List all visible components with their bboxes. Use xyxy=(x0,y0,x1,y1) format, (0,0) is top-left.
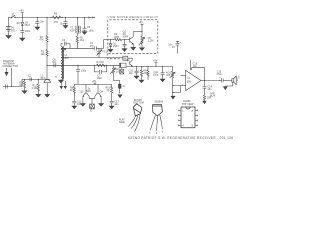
capacitor C11 xyxy=(153,66,168,79)
svg-text:22K: 22K xyxy=(41,53,46,56)
svg-text:SIDE: SIDE xyxy=(119,121,125,124)
ground R12 xyxy=(36,94,41,97)
wire output xyxy=(201,79,222,81)
svg-text:47R: 47R xyxy=(54,21,59,24)
ground R11 xyxy=(22,91,27,94)
svg-text:2.2M: 2.2M xyxy=(148,39,153,42)
TO-92 package 2 body xyxy=(153,105,163,116)
ground battery xyxy=(6,36,11,39)
svg-text:+9V: +9V xyxy=(139,21,144,24)
ground coil xyxy=(59,80,64,83)
wire wiper to opamp xyxy=(173,86,181,93)
wire busB left corner down to line C xyxy=(103,40,105,49)
wire pin up xyxy=(191,60,198,71)
svg-text:47p: 47p xyxy=(90,45,95,48)
node vol x173 wiper xyxy=(172,85,173,86)
diode D2 vertical xyxy=(17,17,31,30)
resistor R6 grid xyxy=(114,33,122,41)
svg-text:10u: 10u xyxy=(60,22,65,25)
svg-text:2N3904: 2N3904 xyxy=(154,101,163,104)
dome choke body xyxy=(44,79,50,94)
svg-text:10n: 10n xyxy=(52,61,57,64)
antenna coupling cap xyxy=(61,39,70,49)
capacitor C7 bypass loop xyxy=(95,65,107,80)
opamp minus input xyxy=(181,73,186,76)
wire to speaker xyxy=(223,79,232,81)
ground right leg xyxy=(109,106,114,109)
svg-text:B+ 9V: B+ 9V xyxy=(88,17,95,20)
wire upper line xyxy=(22,78,44,80)
two-pin header xyxy=(55,75,67,88)
capacitor on upper line xyxy=(28,75,32,82)
ground Q4 xyxy=(99,104,104,107)
feedback loop xyxy=(192,68,205,81)
svg-text:2K2: 2K2 xyxy=(143,72,148,75)
wire x47 down from det line xyxy=(46,65,48,79)
trim box xyxy=(119,84,126,93)
wire battery to switch xyxy=(9,16,12,18)
wire collector rail xyxy=(133,31,142,33)
wire input line xyxy=(3,86,22,88)
transistor Q2 loop xyxy=(123,56,132,60)
capacitor C17 right leg xyxy=(110,101,120,107)
svg-text:549: 549 xyxy=(86,90,91,93)
svg-text:w: w xyxy=(55,75,57,78)
DIP-8 right pins xyxy=(195,110,197,127)
ground R7 xyxy=(140,48,145,51)
capacitor C4 xyxy=(60,17,68,25)
dashed stub lower left xyxy=(108,53,120,58)
resistor R10 zobel xyxy=(203,95,211,101)
svg-text:10K: 10K xyxy=(166,74,171,77)
ground left leg xyxy=(72,106,77,109)
ground dome xyxy=(45,94,50,97)
node bus junction x84 xyxy=(84,17,85,18)
node input x11 xyxy=(11,86,12,87)
node output x204 xyxy=(204,80,205,81)
bus B grid line xyxy=(104,39,115,41)
svg-text:LOW NOISE REGEN CIRCUIT: LOW NOISE REGEN CIRCUIT xyxy=(108,15,159,19)
opamp plus input xyxy=(181,83,186,86)
ground C11 xyxy=(160,79,165,82)
resistor R under T1 xyxy=(76,36,84,48)
svg-text:42IF: 42IF xyxy=(70,29,75,32)
variable capacitor VC1 xyxy=(97,48,108,57)
speaker LS1 xyxy=(232,76,240,85)
svg-text:10n: 10n xyxy=(129,72,134,75)
tap arrow on coil xyxy=(63,49,66,52)
jack box hatch xyxy=(90,104,95,113)
ground arrow x120 xyxy=(118,95,122,98)
ground x37 xyxy=(35,27,40,30)
switch S1 xyxy=(11,14,15,18)
capacitor input series xyxy=(6,85,8,89)
speaker return wire xyxy=(225,82,233,86)
svg-text:386: 386 xyxy=(187,80,192,83)
svg-text:+9V: +9V xyxy=(153,60,158,63)
capacitor C1 xyxy=(20,30,31,38)
wire line D xyxy=(61,57,123,59)
node bus junction x47 xyxy=(46,17,47,18)
node regen junction xyxy=(141,31,142,32)
DIP-8 body xyxy=(181,107,195,128)
svg-text:K8TNO PATRIOT S.W. REGENERATIV: K8TNO PATRIOT S.W. REGENERATIVE RECEIVER… xyxy=(128,136,233,140)
capacitor C15 out xyxy=(216,70,223,82)
svg-text:4K7: 4K7 xyxy=(70,89,75,92)
capacitor C8 xyxy=(123,39,127,48)
ground x65 xyxy=(63,26,68,29)
svg-text:1K: 1K xyxy=(106,89,109,92)
capacitor C2 xyxy=(35,17,44,27)
node F x148 xyxy=(147,66,148,67)
svg-text:CONNECTOR: CONNECTOR xyxy=(2,65,18,68)
power flag +9V bias xyxy=(92,80,97,84)
resistor R3 lower divider xyxy=(41,49,49,65)
ground Q3 xyxy=(81,104,86,107)
svg-text:1N34: 1N34 xyxy=(113,45,119,48)
ground C10 xyxy=(134,76,139,79)
capacitor C10 xyxy=(129,66,139,76)
jack box below AF line xyxy=(120,68,124,75)
capacitor C5 polarized xyxy=(83,17,95,32)
ground arrow volume xyxy=(171,96,175,99)
potentiometer volume xyxy=(166,66,175,96)
capacitor C6 on line E xyxy=(52,58,57,67)
ground C8 xyxy=(122,49,127,52)
node line C x79 xyxy=(77,48,78,49)
svg-text:2.2M: 2.2M xyxy=(32,87,37,90)
node F x162 xyxy=(162,66,163,67)
svg-text:1K: 1K xyxy=(172,46,175,49)
svg-text:100n: 100n xyxy=(25,30,31,33)
wire detector line E xyxy=(47,64,120,66)
svg-text:10u: 10u xyxy=(114,103,119,106)
node bus junction x22 xyxy=(22,17,23,18)
svg-text:100K: 100K xyxy=(114,36,120,39)
potentiometer throttle xyxy=(110,65,122,75)
TO-92 package 1 legs xyxy=(128,115,140,132)
svg-text:+9V: +9V xyxy=(19,10,24,13)
node x38 xyxy=(38,79,39,80)
svg-text:BOTTOM: BOTTOM xyxy=(133,102,143,105)
junction box det-AF xyxy=(120,63,127,67)
resistor R9 left leg xyxy=(70,84,76,101)
transformer T1 xyxy=(70,17,81,36)
node line D left xyxy=(64,57,65,58)
svg-text:47K: 47K xyxy=(39,38,44,41)
resistor R2 upper divider xyxy=(39,17,48,49)
svg-text:100p: 100p xyxy=(81,69,87,72)
transistor Q4 xyxy=(95,84,104,103)
ground D1 xyxy=(108,49,113,52)
node line E x47 xyxy=(46,65,47,66)
wire pot to AF line xyxy=(114,75,120,84)
wire step up xyxy=(21,79,23,86)
node x24 xyxy=(24,79,25,80)
dashed box regen circuit xyxy=(108,20,158,54)
power flag +9V regen xyxy=(139,21,144,32)
power flag +9V AF xyxy=(153,60,158,67)
node F x133 xyxy=(132,66,133,67)
wire coil top corner xyxy=(60,44,62,45)
ground x84 xyxy=(82,32,87,35)
capacitor C16 left leg xyxy=(72,101,82,107)
svg-text:3904: 3904 xyxy=(123,36,129,39)
TO-92 package 2 legs xyxy=(150,115,162,131)
ground arrow zobel xyxy=(203,101,206,103)
svg-text:1M: 1M xyxy=(19,84,22,87)
diode D1 xyxy=(109,40,119,50)
svg-text:100u: 100u xyxy=(89,29,95,32)
antenna jack pins xyxy=(5,68,12,87)
node line E x79 xyxy=(77,65,78,66)
node bus junction x65 xyxy=(65,17,66,18)
resistor R10 right leg xyxy=(105,84,112,101)
svg-text:OUT: OUT xyxy=(210,95,216,98)
power flag +9V left xyxy=(19,10,24,18)
node R4 right xyxy=(106,65,107,66)
resistor R4 on line E xyxy=(96,61,107,67)
capacitor C12 supply xyxy=(168,41,182,54)
capacitor C14 zobel xyxy=(203,81,213,95)
TO-92 package 1 body xyxy=(133,104,142,116)
op-amp U1 triangle xyxy=(186,70,201,90)
capacitor C3 on line C xyxy=(90,42,97,50)
wire AF supply line F xyxy=(126,65,173,67)
svg-text:5817: 5817 xyxy=(25,24,31,27)
battery BT1 xyxy=(6,17,16,35)
node D1 junction xyxy=(110,39,111,40)
resistor R7 xyxy=(140,66,148,80)
resistor R11 to ground xyxy=(19,79,25,90)
wire bias rail xyxy=(74,83,111,85)
svg-text:10n: 10n xyxy=(207,88,212,91)
transistor Q1 regen xyxy=(123,30,134,47)
inductor L1 tank coil xyxy=(61,45,69,81)
svg-text:100p: 100p xyxy=(97,77,103,80)
resistor R1 series in bus xyxy=(50,12,63,24)
svg-text:R4 1M: R4 1M xyxy=(97,61,104,64)
DIP-8 left pins xyxy=(179,110,181,127)
ground arrow speaker xyxy=(223,87,227,90)
svg-text:2K2: 2K2 xyxy=(80,39,85,42)
ground R7 xyxy=(139,80,144,83)
ground Q1 xyxy=(131,47,136,50)
node bus junction x77 xyxy=(77,17,78,18)
svg-text:10n: 10n xyxy=(40,20,45,23)
capacitor coupling x79 xyxy=(76,65,87,84)
ground x22 xyxy=(20,38,25,41)
wire top supply bus xyxy=(16,16,96,18)
transistor Q3 xyxy=(80,84,89,103)
node bus junction x37 xyxy=(37,17,38,18)
resistor R8 xyxy=(147,66,149,80)
node R4 left xyxy=(94,65,95,66)
svg-text:100u: 100u xyxy=(153,73,159,76)
svg-text:BT1: BT1 xyxy=(11,30,16,33)
node F x141 xyxy=(141,66,142,67)
wire line C xyxy=(61,47,94,49)
wire emitters join xyxy=(89,98,95,104)
svg-text:TOP VIEW: TOP VIEW xyxy=(182,103,195,106)
resistor R12 to ground xyxy=(32,79,40,94)
svg-text:+9V: +9V xyxy=(92,80,97,83)
svg-text:VC1: VC1 xyxy=(102,50,107,53)
potentiometer R7 regen xyxy=(139,32,154,48)
